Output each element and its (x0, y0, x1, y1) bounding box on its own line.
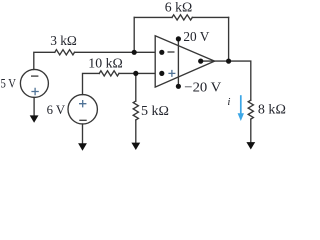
ground arrow below 5k resistor (131, 143, 140, 150)
svg-text:10 kΩ: 10 kΩ (88, 57, 123, 72)
wire 5k resistor to ground (135, 120, 137, 143)
op-amp noninverting input pin dot (159, 71, 164, 76)
node A junction 3k feedback (132, 50, 137, 55)
op-amp U1 triangle (155, 36, 214, 87)
svg-text:6 kΩ: 6 kΩ (165, 1, 192, 16)
ground arrow below 8k resistor (246, 142, 255, 149)
svg-text:5 V: 5 V (1, 76, 17, 91)
op-amp negative supply pin dot (176, 84, 181, 89)
wire feedback left vertical (133, 17, 135, 52)
voltage source V2 6V circle (68, 95, 97, 124)
svg-text:i: i (227, 96, 230, 108)
ground arrow below 6V source (78, 143, 87, 150)
wire feedback top right segment (192, 16, 228, 18)
svg-text:6 V: 6 V (47, 102, 66, 117)
wire 5V source top to 3k resistor (34, 52, 55, 69)
wire 5k branch top (135, 73, 137, 101)
svg-text:−20 V: −20 V (184, 81, 221, 96)
op-amp power pin line (177, 39, 179, 86)
svg-text:8 kΩ: 8 kΩ (258, 103, 286, 118)
5V source plus sign (31, 88, 38, 95)
current arrow i blue (240, 95, 242, 114)
resistor 5 kOhm (133, 101, 138, 120)
wire op-amp output (201, 61, 251, 100)
ground arrow below 5V source (30, 115, 39, 122)
svg-text:3 kΩ: 3 kΩ (50, 34, 77, 49)
wire 6V source bottom to ground (82, 124, 84, 144)
wire feedback top left segment (134, 16, 172, 18)
svg-text:5 kΩ: 5 kΩ (141, 104, 169, 119)
wire 5V source bottom to ground (33, 97, 35, 116)
6V source minus sign (79, 119, 86, 121)
wire 8k resistor to ground (250, 119, 252, 143)
op-amp plus sign (168, 70, 175, 77)
wire feedback right vertical to output node (228, 17, 230, 61)
node C output feedback junction (226, 59, 231, 64)
wire 6V source top to 10k resistor (83, 73, 100, 94)
6V source plus sign (79, 100, 86, 107)
op-amp output pin dot (198, 59, 203, 64)
resistor 6 kOhm feedback (172, 15, 192, 20)
node B junction 10k 5k (133, 71, 138, 76)
5V source minus sign (31, 75, 38, 77)
svg-text:20 V: 20 V (183, 30, 209, 45)
op-amp inverting input pin dot (159, 50, 164, 55)
op-amp minus sign (168, 51, 175, 53)
op-amp positive supply pin dot (176, 36, 181, 41)
voltage source V1 5V circle (20, 69, 48, 97)
resistor 8 kOhm (248, 100, 253, 119)
wire 10k resistor to op-amp noninverting input (119, 72, 162, 74)
resistor 10 kOhm (99, 71, 119, 76)
resistor 3 kOhm (55, 50, 75, 55)
wire 3k resistor to op-amp inverting input (75, 51, 162, 53)
